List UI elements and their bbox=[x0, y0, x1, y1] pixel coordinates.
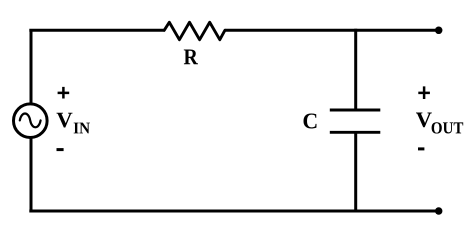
polarity + for VOUT bbox=[418, 86, 430, 99]
polarity - for VIN bbox=[57, 148, 64, 151]
node: output terminal, bottom (-) bbox=[435, 207, 443, 215]
wire: capacitor branch, lower stub bbox=[354, 132, 357, 212]
resistor R (zigzag) bbox=[164, 22, 225, 39]
label C bbox=[304, 114, 317, 129]
label VIN bbox=[57, 113, 73, 128]
voltage source VIN: circle body bbox=[14, 104, 48, 138]
label VOUT bbox=[416, 113, 432, 128]
wire: top conductor, right segment to output terminal bbox=[225, 29, 439, 32]
capacitor C: top plate bbox=[330, 109, 381, 112]
polarity + for VIN bbox=[58, 87, 70, 99]
wire: left vertical branch (VIN branch) bbox=[30, 30, 33, 211]
polarity - for VOUT bbox=[418, 147, 424, 150]
wire: bottom return conductor bbox=[29, 210, 438, 213]
wire: capacitor branch, upper stub bbox=[354, 29, 357, 110]
label R bbox=[184, 50, 198, 65]
capacitor C: bottom plate bbox=[330, 131, 381, 134]
node: output terminal, top (+) bbox=[435, 27, 443, 35]
voltage source VIN: sine waveform bbox=[20, 114, 41, 128]
wire: top conductor, left segment bbox=[29, 29, 164, 32]
